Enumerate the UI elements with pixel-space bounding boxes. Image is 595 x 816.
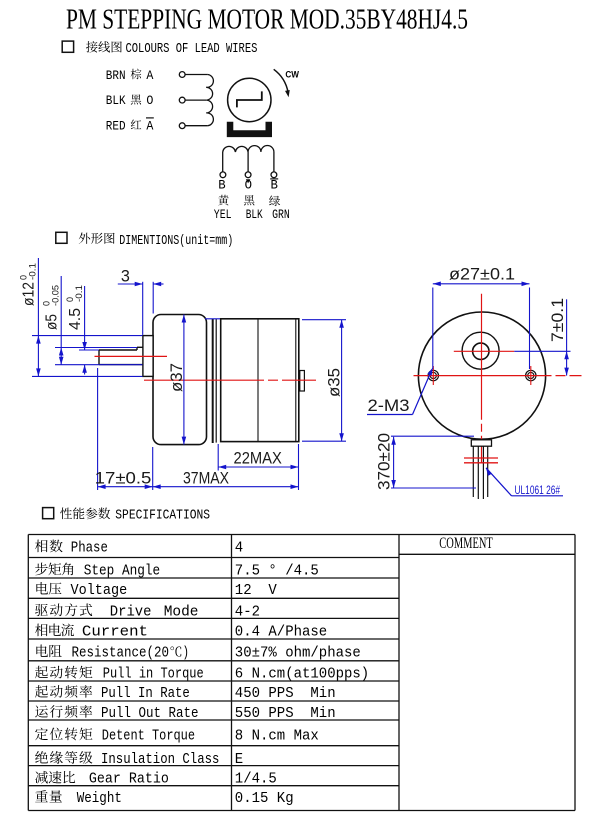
section 2 label 外形图 DIMENTIONS(unit=mm): [79, 233, 90, 244]
front view: shaft circle: [473, 343, 489, 359]
section 3 checkbox: [43, 508, 54, 519]
color label 绿: [269, 196, 280, 207]
svg-text:4.5: 4.5: [67, 308, 84, 330]
dimension ø37: [183, 315, 185, 445]
dimension 7±0.1: [566, 299, 568, 375]
dimension ø5 -0.05: [60, 276, 62, 365]
motor centerline (red, dashed): [144, 379, 316, 381]
table row 10: Detent Torque: [35, 728, 48, 741]
svg-text:Phase: Phase: [71, 540, 108, 556]
side view: motor rear double line: [295, 320, 297, 442]
dimension 22MAX: [218, 466, 298, 468]
svg-text:UL1061 26#: UL1061 26#: [515, 485, 561, 497]
table row 4: Drive Mode: [35, 604, 48, 616]
svg-text:ø35: ø35: [326, 368, 344, 397]
svg-text:B: B: [218, 178, 226, 193]
boss horizontal centerline (red): [454, 350, 515, 352]
lead wires: [472, 446, 474, 497]
svg-text:17±0.5: 17±0.5: [95, 470, 152, 488]
svg-text:Voltage: Voltage: [71, 583, 128, 599]
svg-text:Pull Out Rate: Pull Out Rate: [101, 706, 199, 722]
svg-text:-0.1: -0.1: [74, 285, 84, 302]
svg-text:CW: CW: [285, 70, 299, 81]
svg-text:12 V: 12 V: [235, 583, 277, 599]
winding lead B: [222, 152, 224, 172]
table row 13: Weight: [35, 790, 48, 802]
svg-text:DIMENTIONS(unit=mm): DIMENTIONS(unit=mm): [119, 234, 233, 249]
terminal B-bar: [271, 172, 277, 178]
front view: shaft boss circle: [462, 332, 499, 369]
terminal O: [179, 97, 185, 103]
stator bracket (thick U): [227, 122, 272, 137]
terminal B: [220, 172, 226, 178]
shaft centerline (red): [95, 355, 168, 357]
side view: gearbox housing: [153, 315, 207, 445]
svg-text:4: 4: [235, 540, 244, 556]
table row 7: Pull in Torque: [35, 666, 48, 679]
svg-text:Detent Torque: Detent Torque: [102, 728, 195, 744]
svg-text:0.15 Kg: 0.15 Kg: [235, 791, 294, 807]
stator coil (vertical, 4 humps): [206, 75, 213, 126]
table row 5: Current: [35, 624, 48, 637]
side view: shaft boss: [143, 336, 153, 377]
svg-text:Current: Current: [82, 624, 148, 640]
svg-text:Pull In Rate: Pull In Rate: [101, 686, 190, 702]
table row 9: Pull Out Rate: [35, 705, 48, 717]
svg-text:PM STEPPING MOTOR MOD.35BY48HJ: PM STEPPING MOTOR MOD.35BY48HJ4.5: [66, 4, 468, 36]
svg-text:0.4 A/Phase: 0.4 A/Phase: [235, 624, 327, 640]
side view: terminal bump: [300, 371, 305, 392]
svg-text:ø37: ø37: [168, 363, 186, 392]
svg-text:550 PPS Min: 550 PPS Min: [235, 706, 336, 722]
wire O to coil: [185, 99, 206, 101]
svg-text:Weight: Weight: [77, 791, 122, 807]
svg-text:O: O: [146, 93, 153, 108]
svg-text:Drive: Drive: [110, 604, 152, 620]
dimension 17±0.5: [98, 486, 153, 488]
svg-text:GRN: GRN: [272, 207, 290, 222]
svg-text:Mode: Mode: [164, 604, 199, 620]
svg-text:Resistance(20: Resistance(20: [72, 645, 170, 661]
svg-text:ø5: ø5: [44, 314, 61, 330]
svg-text:COLOURS OF LEAD WIRES: COLOURS OF LEAD WIRES: [126, 42, 258, 57]
svg-text:Pull in Torque: Pull in Torque: [103, 667, 204, 683]
lead wires connector: [471, 440, 491, 446]
wire A to coil: [185, 74, 208, 76]
table row 1: Phase: [35, 540, 48, 553]
svg-text:): ): [183, 645, 190, 661]
svg-text:BLK: BLK: [106, 93, 126, 108]
svg-text:22MAX: 22MAX: [234, 449, 282, 467]
terminal A: [179, 72, 185, 78]
CW rotation arrow: [274, 69, 288, 92]
motor winding (horizontal, 4 humps): [223, 146, 274, 152]
winding lead B-bar: [273, 152, 275, 172]
wire A-bar to coil: [185, 125, 208, 127]
svg-text:3: 3: [121, 268, 130, 286]
svg-text:Step Angle: Step Angle: [84, 563, 161, 579]
dimension 37MAX: [153, 486, 299, 488]
svg-text:YEL: YEL: [214, 207, 232, 222]
svg-text:A: A: [146, 68, 153, 83]
table row 2: Step Angle: [35, 563, 48, 576]
dimension ø35: [341, 320, 343, 442]
svg-text:O: O: [245, 178, 253, 193]
table row 6: Resistance: [36, 645, 48, 657]
color label 黄: [218, 195, 229, 206]
dimension ø12 -0.1: [37, 258, 39, 376]
spec table frame: [28, 535, 575, 811]
svg-text:COMMENT: COMMENT: [439, 535, 493, 552]
winding lead O: [247, 152, 249, 172]
table row 11: Insulation Class: [35, 751, 48, 763]
front view: motor face circle: [418, 312, 545, 439]
section 3 label 性能参数 SPECIFICATIONS: [60, 508, 72, 520]
front view: mounting hole right: [526, 370, 536, 380]
section 2 checkbox: [56, 232, 67, 243]
svg-text:6 N.cm(at100pps): 6 N.cm(at100pps): [235, 667, 369, 683]
rotor circle U1: [228, 78, 271, 121]
svg-text:370±20: 370±20: [376, 433, 394, 490]
hole centerline crosses (red): [424, 375, 443, 377]
svg-text:E: E: [235, 752, 243, 768]
side view: motor flange lines: [212, 319, 214, 443]
svg-text:Gear Ratio: Gear Ratio: [89, 772, 169, 788]
dimension 370±20: [393, 437, 395, 488]
side view: motor body: [221, 319, 299, 442]
svg-text:4-2: 4-2: [235, 604, 260, 620]
dimension 3 (boss length): [118, 283, 143, 285]
section 1 checkbox: [62, 41, 73, 52]
terminal O2: [245, 172, 251, 178]
label UL1061 26# with leader: [484, 467, 492, 476]
svg-text:37MAX: 37MAX: [183, 470, 229, 488]
svg-text:B: B: [271, 178, 279, 193]
svg-text:8 N.cm Max: 8 N.cm Max: [235, 728, 319, 744]
dimension ø27±0.1: [433, 283, 530, 285]
svg-text:7±0.1: 7±0.1: [549, 298, 567, 342]
svg-text:A: A: [146, 118, 153, 133]
color label 黑: [244, 195, 255, 205]
front view: mounting hole left: [428, 370, 438, 380]
vertical centerline (red): [481, 294, 483, 464]
table row 8: Pull In Rate: [35, 685, 48, 698]
svg-text:1/4.5: 1/4.5: [235, 772, 277, 788]
horizontal centerline (red): [414, 375, 582, 377]
rotor step symbol: [237, 91, 262, 107]
side view: motor body seam: [257, 320, 259, 442]
table row 3: Voltage: [36, 582, 48, 594]
svg-text:BLK: BLK: [246, 207, 263, 222]
svg-text:2-M3: 2-M3: [368, 397, 410, 415]
terminal A-bar: [179, 123, 185, 129]
table row 12: Gear Ratio: [35, 771, 48, 784]
svg-text:7.5 ° /4.5: 7.5 ° /4.5: [235, 563, 319, 579]
svg-text:30±7% ohm/phase: 30±7% ohm/phase: [235, 645, 361, 661]
svg-text:-0.05: -0.05: [51, 285, 61, 306]
svg-text:450 PPS Min: 450 PPS Min: [235, 686, 336, 702]
svg-text:SPECIFICATIONS: SPECIFICATIONS: [115, 509, 210, 524]
wire break marks (red): [464, 457, 498, 459]
svg-text:ø12: ø12: [21, 282, 38, 306]
svg-text:Insulation Class: Insulation Class: [101, 752, 219, 768]
svg-text:BRN: BRN: [106, 68, 126, 83]
side view: shaft: [99, 349, 137, 351]
dimension 4.5 -0.1: [84, 286, 86, 350]
section 1 label 接线图 COLOURS OF LEAD WIRES: [86, 41, 98, 52]
svg-text:ø27±0.1: ø27±0.1: [449, 265, 515, 283]
svg-text:RED: RED: [106, 118, 126, 133]
svg-text:-0.1: -0.1: [28, 263, 38, 280]
